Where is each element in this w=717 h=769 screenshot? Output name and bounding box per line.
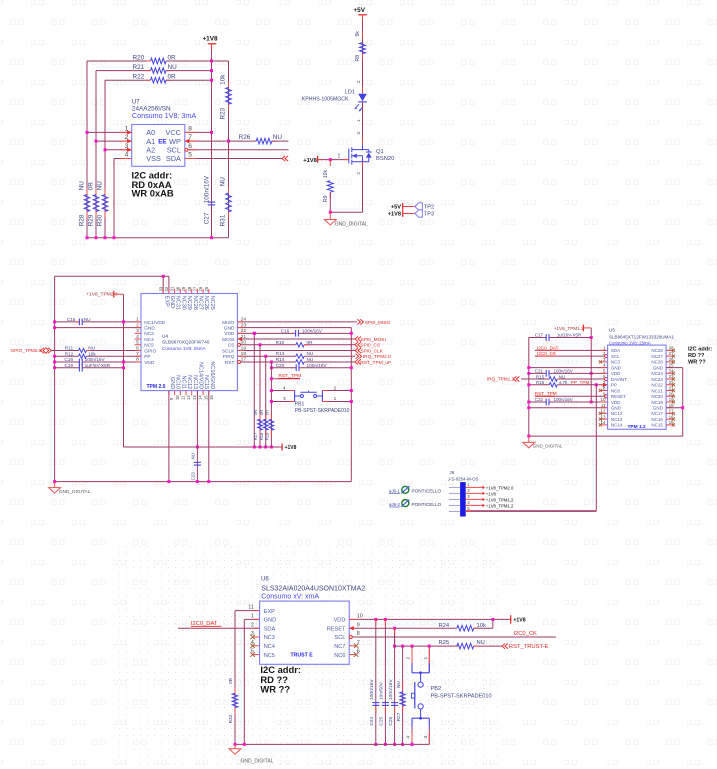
svg-text:C19: C19 bbox=[64, 363, 73, 368]
svg-text:NC12: NC12 bbox=[611, 411, 623, 416]
svg-text:J6: J6 bbox=[449, 470, 454, 475]
svg-text:R25: R25 bbox=[439, 640, 450, 646]
svg-text:+1V8: +1V8 bbox=[513, 618, 525, 624]
svg-text:RST_TPM_uP: RST_TPM_uP bbox=[360, 360, 391, 366]
svg-text:+1V8: +1V8 bbox=[303, 158, 317, 164]
svg-text:R23: R23 bbox=[220, 107, 227, 119]
svg-text:GND_DIGITAL: GND_DIGITAL bbox=[335, 221, 368, 227]
svg-text:EXP: EXP bbox=[163, 296, 169, 307]
svg-text:14: 14 bbox=[600, 420, 606, 425]
svg-text:GND_DIGITAL: GND_DIGITAL bbox=[59, 489, 91, 495]
svg-text:PONTICELLO: PONTICELLO bbox=[412, 502, 442, 507]
svg-text:PP: PP bbox=[611, 383, 617, 388]
svg-text:+1V8_TPM1.2: +1V8_TPM1.2 bbox=[486, 503, 514, 508]
svg-text:NC26: NC26 bbox=[651, 360, 663, 365]
svg-text:VDD: VDD bbox=[611, 400, 621, 405]
svg-text:NC3: NC3 bbox=[264, 635, 275, 641]
svg-text:100n/16V: 100n/16V bbox=[85, 357, 106, 362]
svg-text:29: 29 bbox=[181, 286, 186, 291]
svg-text:NU: NU bbox=[273, 134, 283, 141]
svg-text:VSS: VSS bbox=[146, 154, 161, 163]
svg-text:PP: PP bbox=[144, 354, 150, 360]
svg-text:GND_DIGITAL: GND_DIGITAL bbox=[241, 758, 274, 764]
svg-text:GND_DIGITAL: GND_DIGITAL bbox=[533, 443, 563, 448]
svg-text:C26: C26 bbox=[388, 716, 394, 725]
svg-text:100n/16V: 100n/16V bbox=[203, 175, 210, 203]
svg-text:0R: 0R bbox=[228, 677, 234, 684]
svg-text:GND: GND bbox=[264, 618, 276, 624]
svg-text:22: 22 bbox=[241, 328, 247, 334]
svg-text:100n/16V: 100n/16V bbox=[554, 397, 573, 402]
svg-text:+1V8_TPM2.0: +1V8_TPM2.0 bbox=[86, 292, 118, 298]
svg-text:11: 11 bbox=[601, 403, 606, 408]
svg-text:R28: R28 bbox=[78, 214, 85, 226]
svg-text:4: 4 bbox=[251, 640, 254, 646]
svg-text:28: 28 bbox=[187, 286, 192, 291]
svg-text:3: 3 bbox=[356, 132, 361, 135]
svg-text:10: 10 bbox=[600, 397, 606, 402]
svg-text:10k: 10k bbox=[220, 74, 227, 85]
svg-text:3: 3 bbox=[283, 396, 286, 401]
svg-text:Consumo 1V8: 25mA: Consumo 1V8: 25mA bbox=[609, 340, 651, 345]
svg-text:NU: NU bbox=[396, 681, 402, 688]
svg-text:100n/16V: 100n/16V bbox=[369, 679, 375, 700]
svg-text:GND: GND bbox=[653, 365, 664, 370]
svg-text:U4: U4 bbox=[162, 333, 168, 339]
svg-text:9k: 9k bbox=[355, 31, 361, 37]
svg-text:NC3: NC3 bbox=[144, 331, 154, 337]
svg-text:NC15: NC15 bbox=[651, 423, 663, 428]
svg-text:8: 8 bbox=[357, 631, 360, 637]
svg-text:SPI0_CLK: SPI0_CLK bbox=[361, 348, 384, 354]
svg-text:33: 33 bbox=[158, 286, 163, 291]
svg-text:VDD: VDD bbox=[611, 371, 621, 376]
svg-text:RST_TRUST-E: RST_TRUST-E bbox=[509, 644, 549, 650]
svg-text:NC23: NC23 bbox=[651, 377, 663, 382]
svg-text:R15: R15 bbox=[536, 374, 545, 379]
svg-text:EXP: EXP bbox=[264, 609, 275, 615]
svg-text:J-S-0254-M-OS: J-S-0254-M-OS bbox=[448, 477, 479, 482]
svg-text:NC6: NC6 bbox=[334, 653, 345, 659]
svg-text:R11: R11 bbox=[65, 346, 74, 351]
svg-text:18: 18 bbox=[669, 403, 675, 408]
svg-text:Consumo 1V8: 3mA: Consumo 1V8: 3mA bbox=[132, 111, 197, 120]
svg-text:4.7k: 4.7k bbox=[559, 380, 568, 385]
svg-text:NC14/VDD: NC14/VDD bbox=[198, 362, 204, 389]
svg-text:NC24: NC24 bbox=[651, 371, 663, 376]
svg-text:I2C addr:: I2C addr: bbox=[688, 346, 712, 352]
svg-text:VDD: VDD bbox=[144, 360, 155, 366]
svg-text:0R: 0R bbox=[168, 74, 177, 81]
svg-text:0R: 0R bbox=[265, 410, 270, 415]
svg-text:1: 1 bbox=[423, 657, 429, 660]
svg-text:10k: 10k bbox=[323, 170, 329, 179]
svg-text:I2C0_CK: I2C0_CK bbox=[537, 351, 557, 356]
svg-text:10: 10 bbox=[175, 395, 180, 400]
svg-text:+1V8: +1V8 bbox=[202, 36, 218, 43]
svg-text:4: 4 bbox=[283, 385, 286, 390]
svg-text:MOSI: MOSI bbox=[222, 337, 234, 343]
svg-text:SPI0_MISO: SPI0_MISO bbox=[365, 320, 391, 326]
svg-text:VCC: VCC bbox=[165, 128, 180, 137]
svg-text:1u/16V-X5R: 1u/16V-X5R bbox=[557, 333, 582, 338]
svg-text:KPHHS-1005MGCK: KPHHS-1005MGCK bbox=[302, 96, 349, 102]
svg-text:A0: A0 bbox=[146, 128, 155, 137]
svg-text:R26: R26 bbox=[239, 134, 251, 141]
svg-text:3: 3 bbox=[125, 143, 129, 150]
svg-text:R16: R16 bbox=[536, 380, 545, 385]
svg-text:NC5: NC5 bbox=[144, 343, 154, 349]
svg-text:NC13: NC13 bbox=[192, 375, 198, 389]
svg-text:7: 7 bbox=[136, 351, 139, 357]
svg-text:I2C0_DAT: I2C0_DAT bbox=[537, 346, 559, 351]
svg-text:16: 16 bbox=[209, 395, 214, 400]
svg-text:C20: C20 bbox=[276, 363, 285, 368]
svg-text:31: 31 bbox=[170, 286, 175, 291]
svg-text:32: 32 bbox=[164, 286, 169, 291]
svg-text:R27: R27 bbox=[396, 712, 402, 721]
svg-text:+1V8: +1V8 bbox=[388, 212, 401, 218]
svg-text:2: 2 bbox=[136, 322, 139, 328]
svg-text:NC26: NC26 bbox=[203, 296, 209, 310]
svg-text:GND: GND bbox=[611, 365, 622, 370]
svg-text:GND: GND bbox=[224, 326, 235, 332]
svg-text:aJ6-1: aJ6-1 bbox=[389, 489, 401, 494]
svg-text:NU: NU bbox=[96, 181, 103, 191]
svg-text:15: 15 bbox=[203, 395, 208, 400]
svg-text:4: 4 bbox=[125, 152, 129, 159]
svg-text:C27: C27 bbox=[203, 212, 210, 224]
svg-text:14: 14 bbox=[198, 395, 203, 400]
svg-text:1: 1 bbox=[136, 317, 139, 323]
svg-text:R10: R10 bbox=[276, 340, 285, 345]
svg-text:C16: C16 bbox=[281, 328, 290, 333]
svg-text:NC5: NC5 bbox=[264, 653, 275, 659]
svg-text:GND: GND bbox=[169, 377, 175, 389]
svg-text:Consumo xV: xmA: Consumo xV: xmA bbox=[261, 593, 319, 600]
svg-text:NU: NU bbox=[191, 453, 196, 459]
svg-text:NC25: NC25 bbox=[209, 296, 215, 310]
svg-text:R31: R31 bbox=[220, 214, 227, 226]
svg-text:5: 5 bbox=[251, 649, 254, 655]
svg-text:PP_TPM: PP_TPM bbox=[571, 380, 590, 385]
svg-text:R24: R24 bbox=[439, 623, 450, 629]
svg-text:2: 2 bbox=[356, 172, 361, 175]
svg-text:U6: U6 bbox=[261, 577, 269, 583]
svg-text:R21: R21 bbox=[133, 64, 145, 71]
svg-text:R8: R8 bbox=[355, 55, 361, 62]
svg-text:NC31: NC31 bbox=[175, 296, 181, 310]
svg-text:R29: R29 bbox=[87, 214, 94, 226]
svg-text:PIRQ: PIRQ bbox=[223, 354, 235, 360]
svg-text:NU: NU bbox=[477, 640, 485, 646]
svg-text:4: 4 bbox=[406, 736, 412, 739]
svg-text:100n/16V: 100n/16V bbox=[554, 368, 573, 373]
svg-text:Consumo 1V8: 25mA: Consumo 1V8: 25mA bbox=[162, 346, 207, 351]
svg-text:21: 21 bbox=[241, 334, 247, 340]
svg-text:U7: U7 bbox=[132, 99, 140, 105]
svg-text:NC29: NC29 bbox=[186, 296, 192, 310]
svg-text:20: 20 bbox=[241, 340, 247, 346]
svg-text:+1V8: +1V8 bbox=[285, 445, 297, 451]
svg-text:25: 25 bbox=[204, 286, 209, 291]
svg-text:NC12: NC12 bbox=[186, 375, 192, 389]
svg-text:6: 6 bbox=[136, 345, 139, 351]
svg-text:SLS32AIA020A4USON10XTMA2: SLS32AIA020A4USON10XTMA2 bbox=[261, 586, 365, 593]
svg-text:9: 9 bbox=[357, 622, 360, 628]
svg-text:R18: R18 bbox=[259, 432, 264, 440]
svg-text:1: 1 bbox=[356, 119, 361, 122]
svg-text:27: 27 bbox=[193, 286, 198, 291]
svg-text:C15: C15 bbox=[67, 317, 76, 322]
svg-text:C23: C23 bbox=[191, 472, 196, 481]
svg-text:12: 12 bbox=[186, 395, 191, 400]
svg-text:SLB9670XQ20FW740: SLB9670XQ20FW740 bbox=[162, 340, 210, 346]
svg-text:0R: 0R bbox=[168, 54, 177, 61]
svg-text:PB2: PB2 bbox=[431, 686, 442, 692]
svg-text:11: 11 bbox=[181, 395, 186, 400]
svg-text:1: 1 bbox=[125, 125, 129, 132]
svg-text:PONTICELLO: PONTICELLO bbox=[412, 489, 442, 494]
svg-text:GPIO_TPM2.0: GPIO_TPM2.0 bbox=[11, 348, 42, 353]
svg-text:12: 12 bbox=[600, 409, 606, 414]
svg-text:+1V8_TPM1.2: +1V8_TPM1.2 bbox=[486, 497, 514, 502]
svg-text:C25: C25 bbox=[379, 716, 385, 725]
svg-text:WR ??: WR ?? bbox=[688, 360, 706, 366]
svg-text:+1V8: +1V8 bbox=[486, 491, 497, 496]
svg-text:+1V8_TPM1.2: +1V8_TPM1.2 bbox=[554, 326, 584, 331]
svg-text:30: 30 bbox=[175, 286, 180, 291]
svg-text:3: 3 bbox=[423, 736, 429, 739]
svg-text:3: 3 bbox=[136, 328, 139, 334]
svg-text:NC10: NC10 bbox=[175, 375, 181, 389]
svg-text:C21: C21 bbox=[535, 368, 544, 373]
svg-text:1: 1 bbox=[334, 396, 337, 401]
svg-text:SCL: SCL bbox=[611, 354, 620, 359]
svg-text:NC3: NC3 bbox=[611, 360, 620, 365]
svg-text:GND: GND bbox=[611, 406, 622, 411]
svg-text:100n/16V: 100n/16V bbox=[307, 363, 328, 368]
svg-text:11: 11 bbox=[248, 605, 254, 611]
svg-text:NC28: NC28 bbox=[651, 348, 663, 353]
svg-text:SPI0_CS: SPI0_CS bbox=[360, 343, 380, 349]
svg-text:7: 7 bbox=[188, 134, 192, 141]
svg-text:8: 8 bbox=[136, 357, 139, 363]
svg-text:R13: R13 bbox=[276, 351, 285, 356]
svg-text:NC16/GND: NC16/GND bbox=[209, 361, 215, 389]
svg-text:IRQ_TPM2.0: IRQ_TPM2.0 bbox=[363, 354, 391, 360]
svg-text:DAVINT: DAVINT bbox=[611, 377, 627, 382]
svg-text:2: 2 bbox=[356, 80, 361, 83]
svg-text:NU: NU bbox=[168, 64, 178, 71]
svg-text:NU: NU bbox=[220, 177, 227, 187]
svg-text:aJ6-2: aJ6-2 bbox=[389, 502, 401, 507]
svg-text:SCL: SCL bbox=[167, 146, 181, 155]
svg-text:WR 0xAB: WR 0xAB bbox=[132, 188, 174, 199]
svg-text:19: 19 bbox=[241, 345, 247, 351]
svg-text:R22: R22 bbox=[133, 74, 145, 81]
svg-text:6: 6 bbox=[188, 143, 192, 150]
svg-text:C17: C17 bbox=[535, 333, 544, 338]
svg-text:NC15: NC15 bbox=[203, 375, 209, 389]
svg-text:C24: C24 bbox=[369, 716, 375, 725]
svg-text:2: 2 bbox=[251, 622, 254, 628]
svg-text:+5V: +5V bbox=[391, 204, 401, 210]
svg-text:0R: 0R bbox=[259, 410, 264, 415]
svg-text:Q1: Q1 bbox=[376, 149, 384, 155]
svg-text:8: 8 bbox=[188, 125, 192, 132]
svg-text:NC20: NC20 bbox=[651, 394, 663, 399]
svg-text:NC14: NC14 bbox=[611, 423, 623, 428]
svg-text:TPM 2.0: TPM 2.0 bbox=[147, 384, 166, 390]
svg-text:PB1: PB1 bbox=[295, 402, 305, 408]
svg-text:CS: CS bbox=[228, 343, 235, 349]
svg-text:PB-SPST-SKRPADE010: PB-SPST-SKRPADE010 bbox=[431, 694, 492, 700]
svg-text:R14: R14 bbox=[276, 357, 285, 362]
svg-text:RST_TPM: RST_TPM bbox=[535, 391, 557, 396]
svg-text:10n/50V: 10n/50V bbox=[379, 681, 385, 700]
svg-text:R20: R20 bbox=[133, 54, 145, 61]
svg-text:+5V: +5V bbox=[353, 7, 365, 14]
svg-text:SCLK: SCLK bbox=[222, 348, 235, 354]
svg-text:5: 5 bbox=[188, 152, 192, 159]
svg-text:+1V8_TPM2.0: +1V8_TPM2.0 bbox=[486, 485, 514, 490]
svg-text:TRUST E: TRUST E bbox=[291, 652, 314, 658]
svg-text:R17: R17 bbox=[253, 432, 258, 440]
svg-text:NU: NU bbox=[307, 351, 314, 356]
svg-text:13: 13 bbox=[192, 395, 197, 400]
svg-text:NU: NU bbox=[559, 374, 566, 379]
svg-text:10: 10 bbox=[357, 614, 363, 620]
svg-text:VDD: VDD bbox=[334, 618, 346, 624]
svg-text:17: 17 bbox=[241, 357, 247, 363]
svg-text:MISO: MISO bbox=[222, 320, 235, 326]
svg-text:TPM 1.2: TPM 1.2 bbox=[628, 424, 646, 430]
svg-text:SCL: SCL bbox=[335, 635, 346, 641]
svg-text:2: 2 bbox=[125, 134, 129, 141]
svg-text:GPIO: GPIO bbox=[144, 348, 156, 354]
svg-text:RD ??: RD ?? bbox=[688, 353, 705, 359]
svg-text:2: 2 bbox=[406, 657, 412, 660]
svg-text:NU: NU bbox=[88, 346, 95, 351]
svg-text:WR ??: WR ?? bbox=[260, 684, 290, 695]
svg-text:EE: EE bbox=[158, 139, 166, 146]
svg-text:C22: C22 bbox=[535, 397, 544, 402]
svg-text:1: 1 bbox=[251, 614, 254, 620]
svg-text:R30: R30 bbox=[96, 214, 103, 226]
svg-text:R12: R12 bbox=[65, 351, 74, 356]
svg-text:I2C0_CK: I2C0_CK bbox=[513, 631, 537, 637]
svg-text:R9: R9 bbox=[323, 195, 329, 202]
svg-text:4: 4 bbox=[136, 334, 139, 340]
svg-text:NC1/VDD: NC1/VDD bbox=[144, 320, 166, 326]
svg-text:0R: 0R bbox=[87, 182, 94, 191]
svg-text:NC28: NC28 bbox=[192, 296, 198, 310]
svg-text:C18: C18 bbox=[64, 357, 73, 362]
svg-text:SLB9645XT12FW133320UMA1: SLB9645XT12FW133320UMA1 bbox=[609, 335, 675, 340]
svg-text:NU: NU bbox=[84, 317, 91, 322]
svg-text:1uF/6V-X5R: 1uF/6V-X5R bbox=[85, 363, 111, 368]
svg-text:TP3: TP3 bbox=[424, 211, 434, 217]
svg-text:U5: U5 bbox=[609, 328, 615, 334]
svg-text:GND: GND bbox=[144, 326, 155, 332]
svg-text:NU: NU bbox=[307, 357, 314, 362]
svg-text:A2: A2 bbox=[146, 146, 155, 155]
svg-text:GND: GND bbox=[653, 406, 664, 411]
svg-text:LD1: LD1 bbox=[345, 89, 355, 95]
svg-text:24: 24 bbox=[241, 317, 247, 323]
svg-text:NC27: NC27 bbox=[198, 296, 204, 310]
svg-text:5: 5 bbox=[136, 340, 139, 346]
svg-text:NC7: NC7 bbox=[334, 644, 345, 650]
svg-text:RST: RST bbox=[225, 360, 235, 366]
svg-text:PB-SPST-SKRPADE010: PB-SPST-SKRPADE010 bbox=[295, 408, 350, 414]
svg-text:RESET: RESET bbox=[611, 394, 626, 399]
svg-text:R19: R19 bbox=[265, 432, 270, 440]
svg-text:NC13: NC13 bbox=[611, 417, 623, 422]
svg-text:SDA: SDA bbox=[264, 626, 276, 632]
svg-text:0R: 0R bbox=[307, 340, 314, 345]
svg-text:0R: 0R bbox=[253, 410, 258, 415]
svg-text:NC4: NC4 bbox=[144, 337, 154, 343]
svg-text:VDD: VDD bbox=[224, 331, 235, 337]
svg-text:SPI0_MOSI: SPI0_MOSI bbox=[361, 337, 386, 343]
svg-text:18: 18 bbox=[241, 351, 247, 357]
svg-text:NC27: NC27 bbox=[651, 354, 663, 359]
svg-text:NC16: NC16 bbox=[651, 417, 663, 422]
svg-text:IRQ_TPM1.2: IRQ_TPM1.2 bbox=[487, 377, 515, 382]
svg-text:26: 26 bbox=[198, 286, 203, 291]
svg-text:RESET: RESET bbox=[327, 626, 346, 632]
svg-text:NC17: NC17 bbox=[651, 411, 663, 416]
svg-text:25: 25 bbox=[669, 363, 675, 368]
svg-text:NU: NU bbox=[78, 181, 85, 191]
svg-text:TP2: TP2 bbox=[424, 204, 434, 210]
svg-text:100n/16V: 100n/16V bbox=[388, 679, 394, 700]
svg-text:NC8: NC8 bbox=[611, 388, 620, 393]
svg-text:WP: WP bbox=[169, 137, 181, 146]
svg-text:BSN20: BSN20 bbox=[376, 156, 394, 162]
svg-text:NC19: NC19 bbox=[651, 400, 663, 405]
svg-text:NC22: NC22 bbox=[651, 383, 663, 388]
svg-text:100n/16V: 100n/16V bbox=[302, 328, 323, 333]
svg-text:3: 3 bbox=[251, 631, 254, 637]
svg-text:R32: R32 bbox=[228, 714, 234, 723]
svg-text:SDA: SDA bbox=[611, 348, 620, 353]
svg-text:GND: GND bbox=[169, 296, 175, 308]
svg-text:13: 13 bbox=[600, 414, 606, 419]
svg-text:2: 2 bbox=[334, 385, 337, 390]
svg-text:NC11: NC11 bbox=[180, 376, 186, 390]
svg-text:1: 1 bbox=[338, 154, 341, 160]
svg-text:10k: 10k bbox=[88, 351, 96, 356]
svg-text:A1: A1 bbox=[146, 137, 155, 146]
svg-text:23: 23 bbox=[241, 322, 247, 328]
svg-text:NC4: NC4 bbox=[264, 644, 275, 650]
svg-text:SDA: SDA bbox=[166, 154, 181, 163]
svg-text:NC30: NC30 bbox=[180, 296, 186, 310]
svg-text:NC21: NC21 bbox=[651, 388, 663, 393]
